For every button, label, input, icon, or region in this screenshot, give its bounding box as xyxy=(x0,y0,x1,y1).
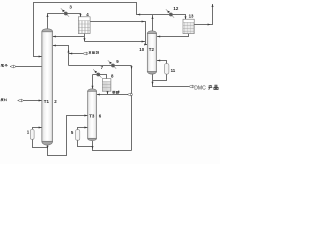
reflux drum 13 xyxy=(183,19,194,33)
wire T3 bottoms line xyxy=(78,140,132,150)
arrow left reboiler vapor into T2 xyxy=(157,60,160,62)
stream text raw material (yuanliao) xyxy=(1,99,4,101)
column T3 xyxy=(88,89,97,141)
arrow left solvent into T1 xyxy=(53,45,56,47)
arrow down on drum8 bottom stub xyxy=(107,91,109,94)
svg-text:11: 11 xyxy=(171,68,176,73)
arrow down on T2 bottoms xyxy=(152,82,154,85)
stream text waste water (feishui) xyxy=(1,64,4,67)
pump 9 xyxy=(108,60,116,68)
arrow left methanol into T3 xyxy=(97,94,100,96)
stream text extractant (cuiqvji) xyxy=(89,51,91,54)
condenser pump 12 xyxy=(166,9,174,17)
arrow down on T3 bottoms xyxy=(92,146,94,149)
wire drum 13 side outlet up to page top xyxy=(194,4,213,25)
arrow right reboiler vapor into T3 xyxy=(84,127,87,129)
wire waste water outlet line xyxy=(16,66,42,68)
wire raw material feed line xyxy=(23,100,42,102)
condenser pump 3 xyxy=(61,8,69,16)
arrow right feed into T3 xyxy=(84,115,87,117)
offpage connector raw material xyxy=(18,99,23,102)
arrowheads xyxy=(39,4,214,149)
wire T2 bottoms to reboiler 11 and DMC product xyxy=(153,74,189,87)
svg-text:T2: T2 xyxy=(149,47,155,52)
reboiler 1 xyxy=(30,129,34,139)
offpage connector DMC product xyxy=(189,85,195,88)
wire drum 13 bottom reflux to T2 xyxy=(157,34,189,37)
svg-text:DMC: DMC xyxy=(194,85,206,91)
wire reboiler 11 vapor return to T2 xyxy=(157,61,167,64)
svg-text:12: 12 xyxy=(173,6,178,11)
wire reboiler 5 vapor return to T3 xyxy=(78,128,88,130)
equipment number labels xyxy=(27,5,206,136)
arrow right feed into T1 xyxy=(39,100,42,102)
wire T2 overhead to condenser 12 and drum 13 xyxy=(153,15,186,20)
arrow right on drum4 bottom line xyxy=(142,41,145,43)
offpage connector waste water xyxy=(10,65,16,68)
wire T1 bottoms to vertical riser to T3 feed xyxy=(33,116,88,156)
arrow left reflux into T1 xyxy=(53,36,56,38)
wire drum 4 right outlet to T2 feed xyxy=(90,22,147,45)
arrow down on T1 bottoms xyxy=(47,146,49,149)
arrow right on drum4 side line xyxy=(142,21,145,23)
arrow right reboiler vapor into T1 xyxy=(39,127,42,129)
wire extractant feed line xyxy=(69,53,83,55)
column T2 xyxy=(147,31,156,74)
pump 7 xyxy=(93,69,101,77)
stream text DMC product (chanpin) xyxy=(208,85,212,90)
svg-text:10: 10 xyxy=(139,47,144,52)
arrow up on T1 riser xyxy=(47,14,49,17)
wire T3 overhead reflux loop through pump 7 and drum 8 xyxy=(93,75,107,90)
arrow down into drum 4 xyxy=(80,14,82,17)
arrow left on top recycle line xyxy=(137,14,140,16)
reflux drum 4 xyxy=(78,17,90,34)
reboiler 11 xyxy=(165,64,169,75)
offpage connector methanol xyxy=(127,93,132,96)
arrow right feed into T2 xyxy=(144,44,147,46)
column T1 xyxy=(42,29,53,145)
wire T1 overhead vapor line to condenser 3 and drum 4 xyxy=(48,14,81,30)
arrow down on recycle vertical xyxy=(131,66,133,69)
reboiler 5 xyxy=(76,130,80,141)
arrow left reflux into T2 xyxy=(157,36,160,38)
arrow down into T3 top xyxy=(92,86,94,89)
arrow up on T2 riser xyxy=(152,16,154,19)
svg-text:13: 13 xyxy=(189,13,194,18)
arrow up on solvent riser xyxy=(68,50,70,53)
arrow left on extractant line xyxy=(69,53,72,55)
svg-text:T1: T1 xyxy=(44,99,50,104)
arrow right on drum13 side outlet xyxy=(208,24,211,26)
wire reboiler 1 vapor return to T1 xyxy=(33,128,42,130)
arrow down on drum4 bottom stub xyxy=(84,38,86,41)
arrow up at page top right xyxy=(212,4,214,7)
arrow down into drum 13 xyxy=(185,16,187,19)
arrow right into T1 left side xyxy=(39,56,42,58)
stream text methanol (jiachun) xyxy=(113,91,115,94)
wire top recycle from T2 top across page top into T1 xyxy=(34,3,153,57)
wire drum 4 bottom reflux to T1 xyxy=(53,34,146,42)
offpage connector extractant xyxy=(83,52,89,55)
wire methanol line into T3 with drum 8 bottom xyxy=(97,91,132,94)
svg-text:T3: T3 xyxy=(89,113,95,118)
wire solvent recycle line through pump 9 xyxy=(53,46,132,151)
reflux drum 8 xyxy=(102,79,111,92)
